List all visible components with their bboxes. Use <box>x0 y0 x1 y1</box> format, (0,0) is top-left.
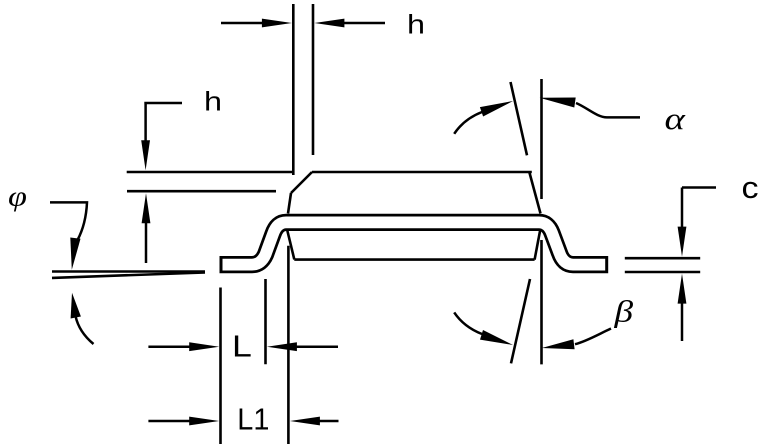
dimension h (left): leader + down arrow <box>141 103 182 263</box>
angle phi: seating plane line <box>52 270 205 273</box>
angle phi: lower arc with up arrow <box>76 316 94 344</box>
dimension c: leader + down arrow <box>678 188 716 342</box>
angle beta: vertical reference line <box>540 240 543 364</box>
lead (cross-section tube, outer black) <box>220 222 609 264</box>
svg-text:h: h <box>204 87 222 117</box>
body top-left chamfer <box>291 172 312 193</box>
chamfer horizontal line 2 (left) <box>127 190 276 193</box>
dimension L1: right arrow <box>317 420 339 423</box>
chamfer extension line right (top) <box>312 4 315 155</box>
extension line C (body edge, L1) <box>287 246 290 444</box>
svg-text:L1: L1 <box>237 403 269 437</box>
body left edge lower <box>287 230 294 259</box>
dimension c: extension line top <box>625 257 700 260</box>
angle phi: leader + down arrow <box>50 202 94 344</box>
dimension h (top): right arrow <box>342 22 385 25</box>
dimension L: right arrow <box>294 345 338 348</box>
body top edge <box>312 171 532 174</box>
angle alpha: right leader with arrow <box>576 103 640 117</box>
angle beta: left arc with arrow <box>454 312 611 349</box>
angle beta: right leader with arrow <box>575 329 611 345</box>
svg-text:φ: φ <box>8 180 27 212</box>
svg-text:h: h <box>407 10 425 40</box>
svg-text:L: L <box>232 330 252 364</box>
angle phi: angled foot line <box>52 273 205 278</box>
body left edge upper <box>288 193 291 214</box>
chamfer extension line left (top) <box>292 4 295 175</box>
angle alpha: vertical reference line <box>540 79 543 199</box>
chamfer horizontal line 1 (left) <box>127 171 294 174</box>
dimension h (left): up arrow <box>145 221 148 263</box>
dimension c: extension line bottom <box>625 271 700 274</box>
angle alpha: left arc with arrow <box>454 98 640 134</box>
dimension h (top): left arrow <box>221 19 385 28</box>
dimension L: left arrow <box>148 342 338 425</box>
angle alpha: slanted lead line <box>511 82 528 155</box>
extension line A (foot tip, L/L1) <box>219 288 222 445</box>
svg-text:c: c <box>742 170 759 204</box>
body right edge upper <box>529 172 540 214</box>
dimension L1: left arrow <box>148 420 192 423</box>
lead (inner white core) <box>223 222 606 264</box>
body bottom edge <box>294 258 534 261</box>
svg-text:α: α <box>665 102 686 136</box>
angle beta: slanted lead line <box>511 279 530 363</box>
body right edge lower <box>535 230 541 260</box>
svg-text:β: β <box>613 294 633 328</box>
extension line B (L) <box>264 279 267 364</box>
dimension c: up arrow <box>681 301 684 341</box>
